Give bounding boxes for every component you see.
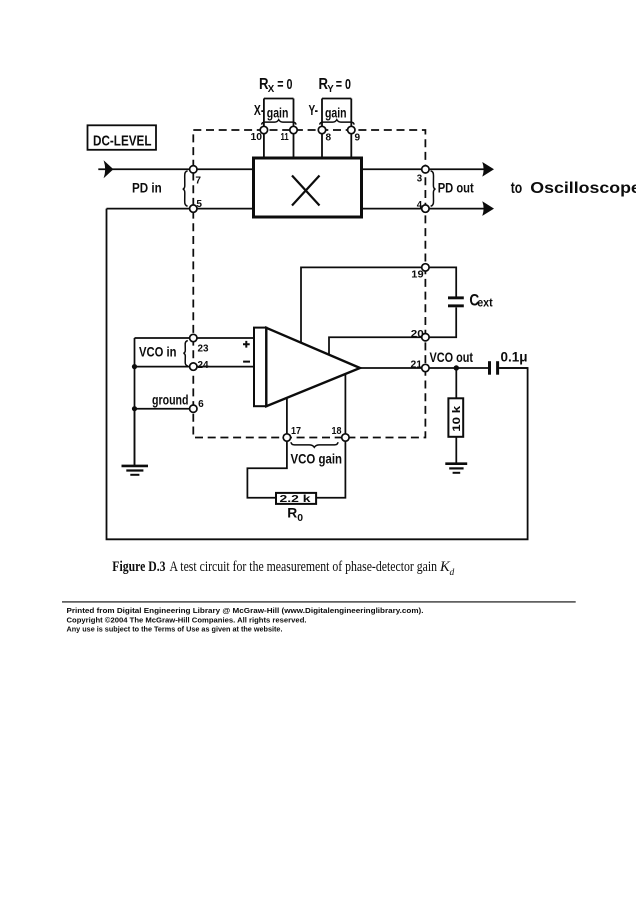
svg-text:3: 3 [417, 174, 423, 185]
svg-text:VCO in: VCO in [139, 345, 177, 360]
svg-text:Any use is subject to the Term: Any use is subject to the Terms of Use a… [67, 625, 283, 634]
svg-text:17: 17 [291, 426, 301, 437]
svg-text:18: 18 [332, 426, 342, 437]
svg-text:4: 4 [417, 200, 423, 211]
svg-text:R: R [287, 505, 297, 521]
svg-text:X-: X- [254, 102, 264, 119]
svg-text:5: 5 [196, 199, 202, 210]
svg-text:9: 9 [355, 133, 361, 144]
svg-text:gain: gain [267, 104, 289, 120]
svg-text:10 k: 10 k [451, 405, 463, 432]
svg-text:8: 8 [326, 133, 332, 144]
svg-text:= 0: = 0 [336, 77, 351, 93]
svg-text:gain: gain [325, 104, 347, 120]
svg-text:24: 24 [198, 360, 209, 371]
svg-text:= 0: = 0 [277, 77, 292, 93]
svg-text:Y-: Y- [309, 102, 319, 119]
svg-text:10: 10 [251, 132, 263, 143]
svg-text:19: 19 [411, 270, 424, 281]
svg-text:PD out: PD out [438, 181, 474, 196]
svg-text:Y: Y [327, 83, 334, 95]
svg-text:21: 21 [411, 359, 423, 370]
svg-text:VCO gain: VCO gain [291, 451, 343, 466]
svg-text:20: 20 [411, 329, 425, 340]
svg-text:11: 11 [281, 132, 290, 143]
svg-text:0.1μ: 0.1μ [501, 349, 528, 365]
svg-text:Copyright ©2004 The McGraw-Hil: Copyright ©2004 The McGraw-Hill Companie… [67, 615, 307, 624]
svg-text:ext: ext [477, 297, 493, 309]
svg-text:7: 7 [195, 176, 201, 187]
svg-text:Oscilloscope: Oscilloscope [530, 180, 636, 197]
svg-text:X: X [268, 83, 275, 95]
svg-text:23: 23 [198, 343, 209, 354]
svg-text:ground: ground [152, 393, 189, 408]
svg-text:VCO out: VCO out [430, 350, 474, 365]
svg-text:to: to [511, 180, 523, 197]
svg-text:Figure D.3: Figure D.3 [112, 559, 165, 575]
svg-text:d: d [450, 568, 455, 578]
svg-text:0: 0 [297, 513, 303, 524]
svg-text:Printed from Digital Engineeri: Printed from Digital Engineering Library… [67, 606, 424, 615]
svg-text:DC-LEVEL: DC-LEVEL [93, 133, 152, 150]
svg-text:6: 6 [198, 399, 204, 410]
svg-text:A test circuit for the measure: A test circuit for the measurement of ph… [170, 559, 438, 575]
svg-text:PD in: PD in [132, 181, 162, 196]
svg-text:2.2 k: 2.2 k [280, 494, 312, 505]
